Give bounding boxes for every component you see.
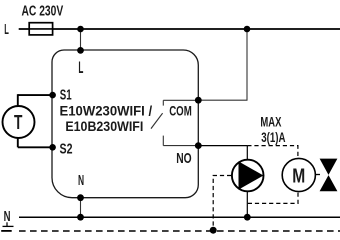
svg-text:E10W230WIFI /: E10W230WIFI / xyxy=(60,102,153,118)
svg-text:T: T xyxy=(14,112,22,134)
svg-text:N: N xyxy=(78,173,84,189)
svg-text:M: M xyxy=(292,165,305,187)
svg-text:MAX: MAX xyxy=(260,115,281,130)
svg-text:3(1)A: 3(1)A xyxy=(261,130,285,145)
svg-text:L: L xyxy=(4,22,9,38)
svg-text:N: N xyxy=(4,208,11,225)
svg-text:E10B230WIFI: E10B230WIFI xyxy=(65,118,143,134)
svg-text:NO: NO xyxy=(176,150,192,167)
svg-text:AC 230V: AC 230V xyxy=(22,4,64,20)
svg-text:L: L xyxy=(78,59,83,77)
svg-text:S1: S1 xyxy=(60,87,72,104)
svg-text:S2: S2 xyxy=(60,140,73,157)
svg-text:COM: COM xyxy=(169,103,192,118)
